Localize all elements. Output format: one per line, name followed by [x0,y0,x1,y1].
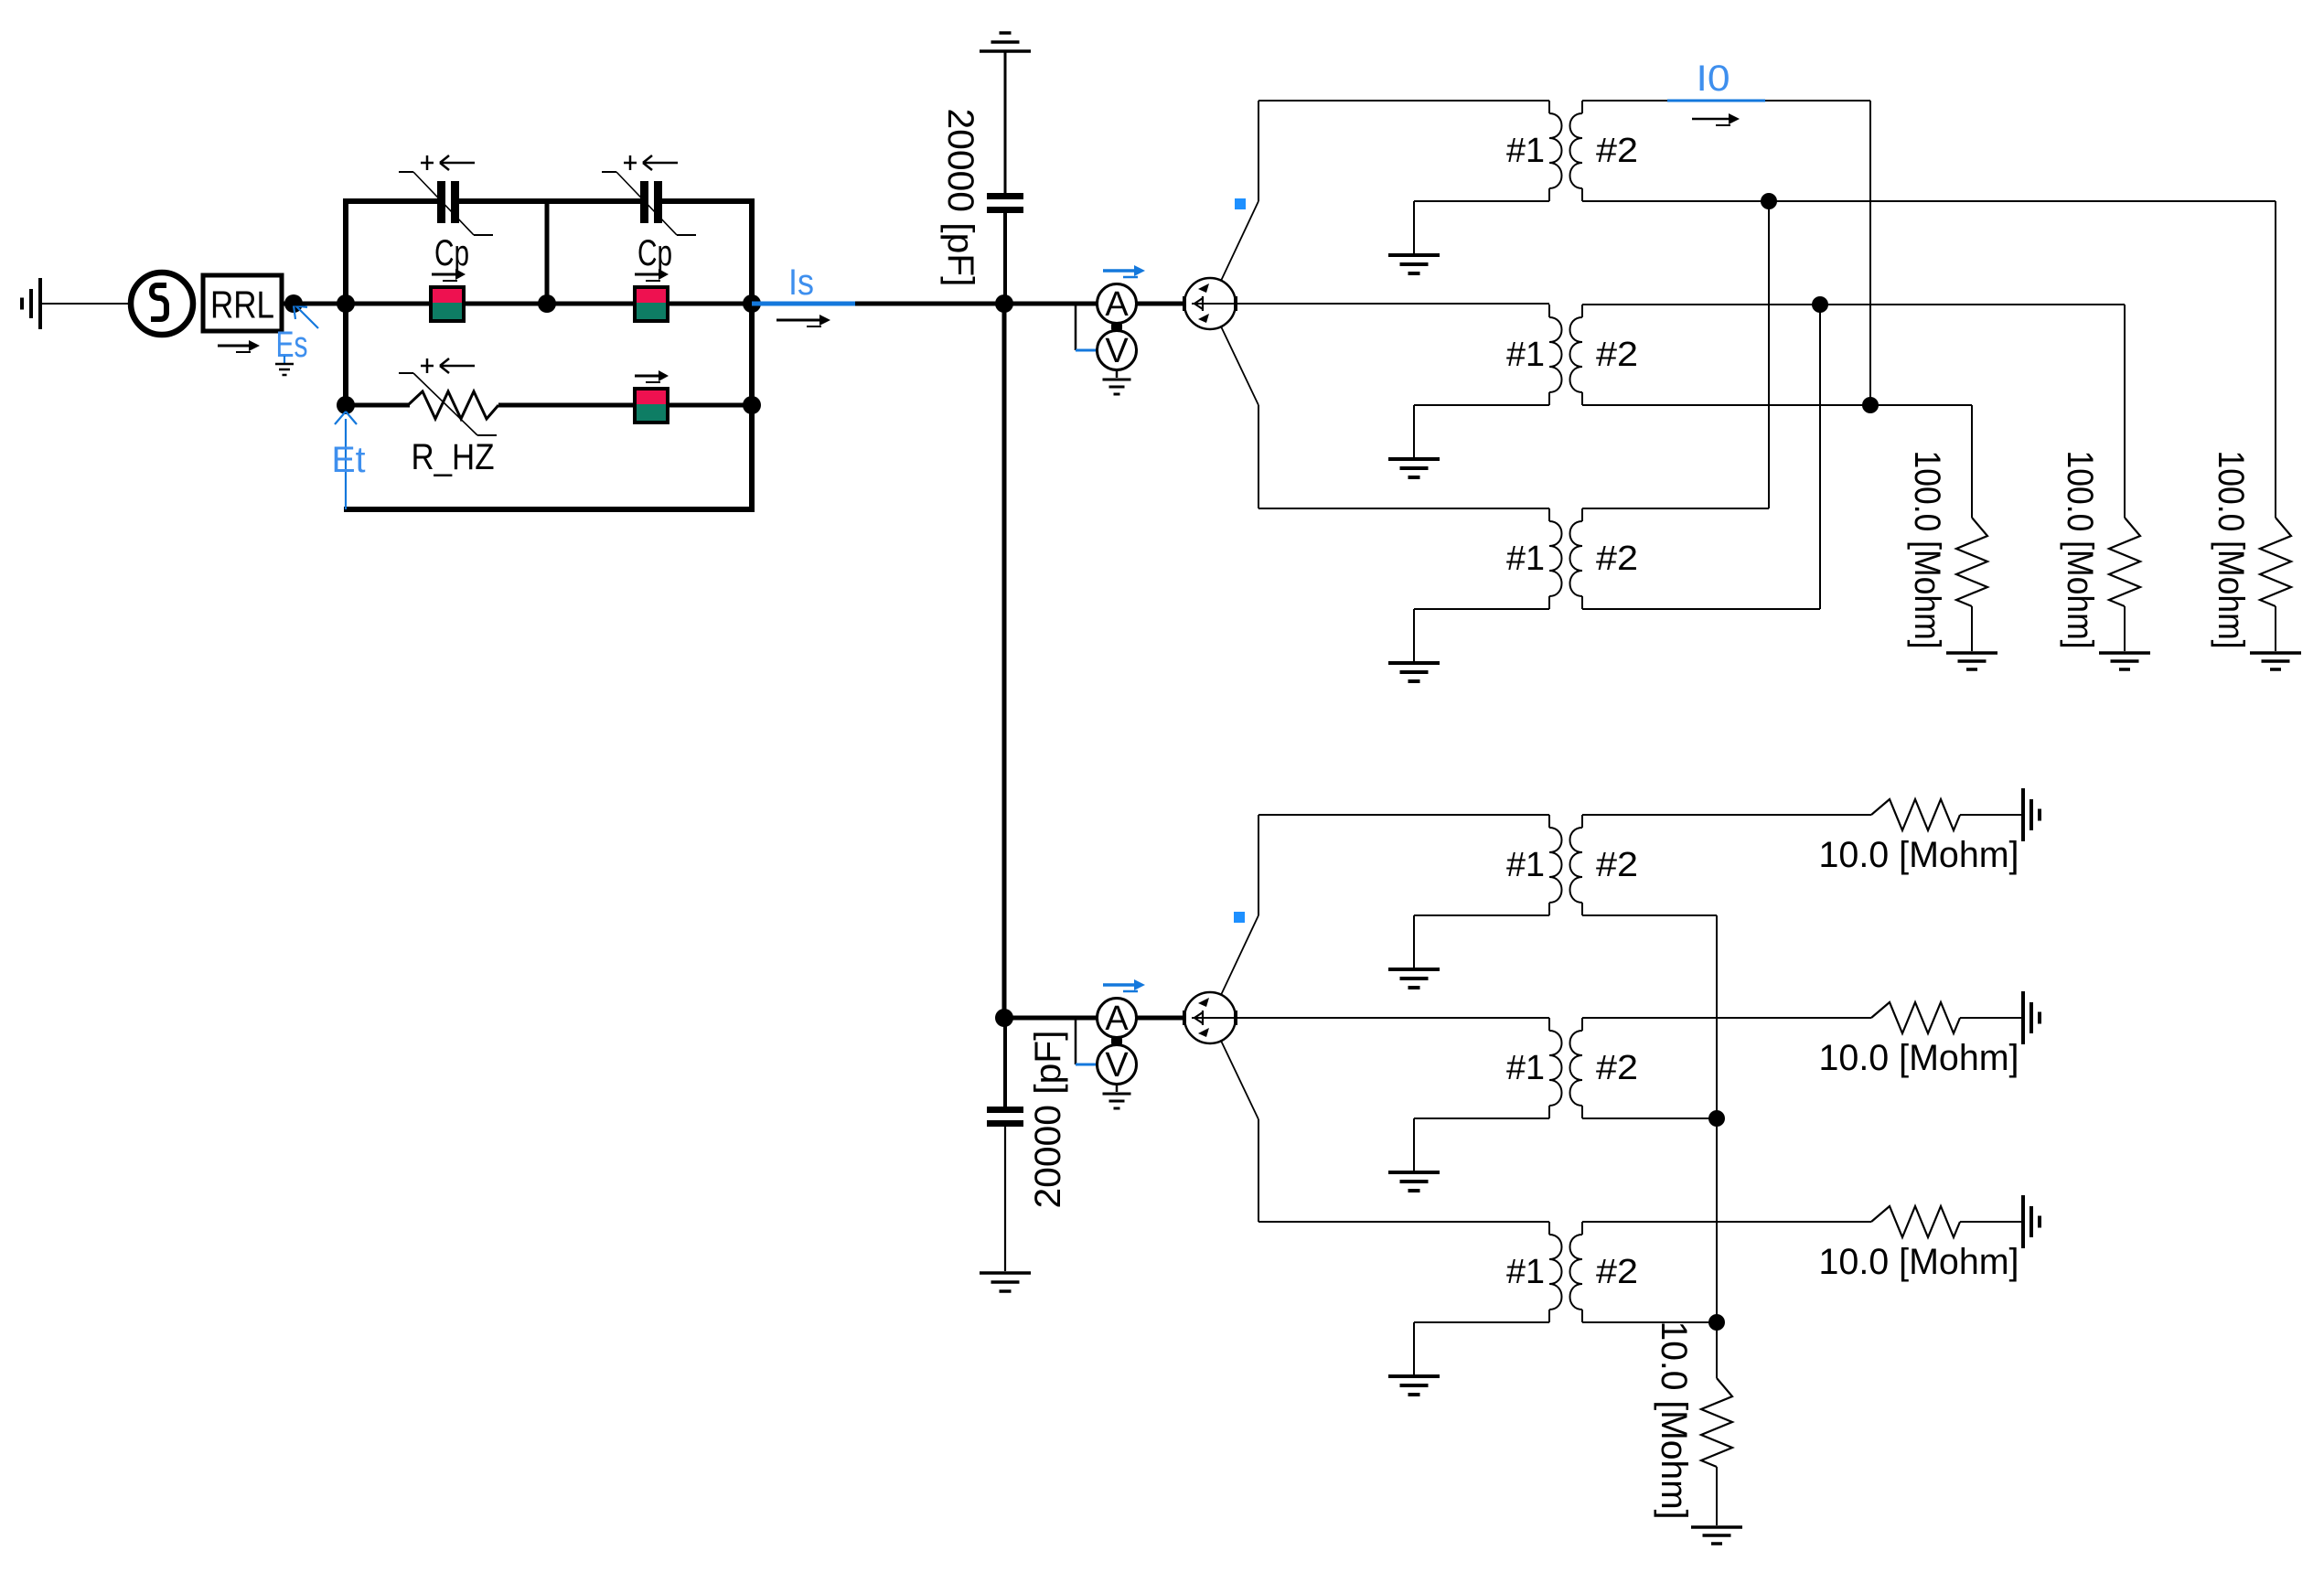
svg-text:RRL: RRL [210,283,274,326]
svg-text:#1: #1 [1506,1253,1545,1291]
svg-text:100.0 [Mohm]: 100.0 [Mohm] [1907,451,1947,649]
svg-text:#2: #2 [1596,132,1638,170]
svg-text:10.0 [Mohm]: 10.0 [Mohm] [1819,835,2019,875]
svg-text:#2: #2 [1596,540,1638,578]
svg-text:100.0 [Mohm]: 100.0 [Mohm] [2211,451,2251,649]
svg-text:#2: #2 [1596,1253,1638,1291]
svg-text:I0: I0 [1697,59,1730,99]
svg-text:Cp: Cp [434,233,469,273]
svg-text:#2: #2 [1596,336,1638,374]
svg-text:Et: Et [332,440,366,480]
svg-text:10.0 [Mohm]: 10.0 [Mohm] [1819,1242,2019,1282]
svg-text:#1: #1 [1506,132,1545,170]
svg-text:#1: #1 [1506,540,1545,578]
svg-text:100.0 [Mohm]: 100.0 [Mohm] [2060,451,2100,649]
svg-text:#1: #1 [1506,1049,1545,1087]
svg-text:#2: #2 [1596,1049,1638,1087]
svg-text:A: A [1105,285,1129,324]
svg-text:Es: Es [276,325,308,365]
svg-text:V: V [1105,1046,1129,1085]
svg-text:R_HZ: R_HZ [412,437,495,477]
svg-text:#1: #1 [1506,846,1545,884]
svg-text:Is: Is [788,262,814,303]
svg-text:V: V [1105,332,1129,370]
svg-text:10.0 [Mohm]: 10.0 [Mohm] [1819,1038,2019,1078]
svg-text:A: A [1105,1000,1129,1038]
svg-text:20000 [pF]: 20000 [pF] [940,108,980,286]
svg-text:#2: #2 [1596,846,1638,884]
svg-text:#1: #1 [1506,336,1545,374]
svg-text:10.0 [Mohm]: 10.0 [Mohm] [1654,1321,1694,1520]
svg-text:Cp: Cp [637,233,672,273]
svg-text:20000 [pF]: 20000 [pF] [1028,1031,1068,1209]
